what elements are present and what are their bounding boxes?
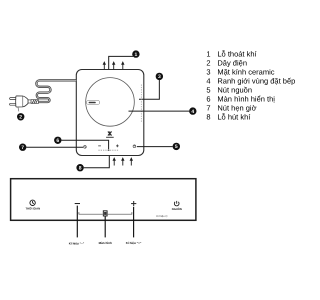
svg-text:THỜI GIAN: THỜI GIAN xyxy=(25,207,40,211)
svg-text:5: 5 xyxy=(206,86,210,95)
svg-text:7: 7 xyxy=(206,104,210,113)
strain relief (hatched) xyxy=(31,100,38,104)
callout line 1 xyxy=(109,56,133,69)
electrolux logo mark xyxy=(106,131,114,138)
svg-text:4: 4 xyxy=(191,109,194,115)
ceramic cooking zone circle xyxy=(86,78,135,127)
callout line 8 xyxy=(84,156,110,168)
svg-text:Kí hiệu ⏻: Kí hiệu ⏻ xyxy=(156,214,168,218)
callout line 6 xyxy=(61,140,108,149)
mini minus xyxy=(98,145,101,148)
callout line 4 xyxy=(129,110,190,112)
callout line 3 xyxy=(139,80,159,99)
svg-text:Ranh giới vùng đặt bếp: Ranh giới vùng đặt bếp xyxy=(217,77,295,86)
legend list xyxy=(206,50,295,122)
callout line 5 xyxy=(137,146,173,148)
svg-text:Kí hiệu “–”: Kí hiệu “–” xyxy=(69,241,85,245)
svg-text:7: 7 xyxy=(21,145,24,151)
svg-text:6: 6 xyxy=(206,95,210,104)
mini display strip xyxy=(98,149,119,151)
cooktop body xyxy=(76,70,144,156)
callout circle 8 xyxy=(76,164,83,172)
svg-text:NGUỒN: NGUỒN xyxy=(172,207,182,211)
svg-text:5: 5 xyxy=(175,144,178,150)
callout circle 2 xyxy=(17,113,24,120)
tick to callout 2 xyxy=(18,107,19,111)
svg-text:8: 8 xyxy=(206,113,210,122)
svg-text:6: 6 xyxy=(56,138,59,144)
control panel detail box xyxy=(11,179,196,221)
dashed boundary marking xyxy=(140,85,142,123)
svg-text:3: 3 xyxy=(206,68,210,77)
bottom intake arrows (x3) xyxy=(113,157,134,165)
svg-text:Lỗ thoát khí: Lỗ thoát khí xyxy=(217,50,257,59)
panel display box xyxy=(103,211,107,216)
panel plus xyxy=(131,201,136,206)
bracket lines xyxy=(79,212,132,214)
panel minus xyxy=(75,203,80,204)
panel power icon xyxy=(174,201,179,206)
svg-text:1: 1 xyxy=(206,50,210,59)
plug body xyxy=(16,96,31,107)
svg-text:Dây điện: Dây điện xyxy=(217,59,247,68)
svg-text:Mặt kính ceramic: Mặt kính ceramic xyxy=(217,68,274,77)
svg-text:Màn hình: Màn hình xyxy=(99,241,112,245)
svg-text:Màn hình hiển thị: Màn hình hiển thị xyxy=(217,95,275,104)
top vent arrows (x3) xyxy=(103,61,125,69)
mini power icon xyxy=(133,145,136,148)
callout circle 3 xyxy=(156,73,163,80)
svg-text:1: 1 xyxy=(135,52,138,58)
callout line 7 xyxy=(26,146,83,148)
svg-text:3: 3 xyxy=(158,74,161,80)
plug prongs xyxy=(10,98,16,106)
mini plus xyxy=(116,145,119,148)
bottom labels xyxy=(69,241,142,245)
label leader lines xyxy=(77,206,133,238)
svg-text:2: 2 xyxy=(206,59,210,68)
callout circle 1 xyxy=(132,50,139,58)
svg-text:Lỗ hút khí: Lỗ hút khí xyxy=(217,113,251,122)
callout circle 6 xyxy=(54,137,61,145)
svg-text:4: 4 xyxy=(206,77,210,86)
mini control row: timer clock icon xyxy=(84,146,87,149)
svg-text:Nút nguồn: Nút nguồn xyxy=(217,86,252,95)
callout circle 5 xyxy=(173,143,180,151)
svg-text:8: 8 xyxy=(79,166,82,172)
brand pill badge on circle xyxy=(87,101,100,105)
svg-text:Nút hẹn giờ: Nút hẹn giờ xyxy=(217,104,256,113)
svg-text:Kí hiệu “+”: Kí hiệu “+” xyxy=(126,241,142,245)
power cord serpentine xyxy=(36,80,76,102)
svg-text:2: 2 xyxy=(19,115,22,121)
callout circle 4 xyxy=(189,107,196,115)
panel clock icon xyxy=(30,200,35,205)
callout circle 7 xyxy=(19,144,26,152)
